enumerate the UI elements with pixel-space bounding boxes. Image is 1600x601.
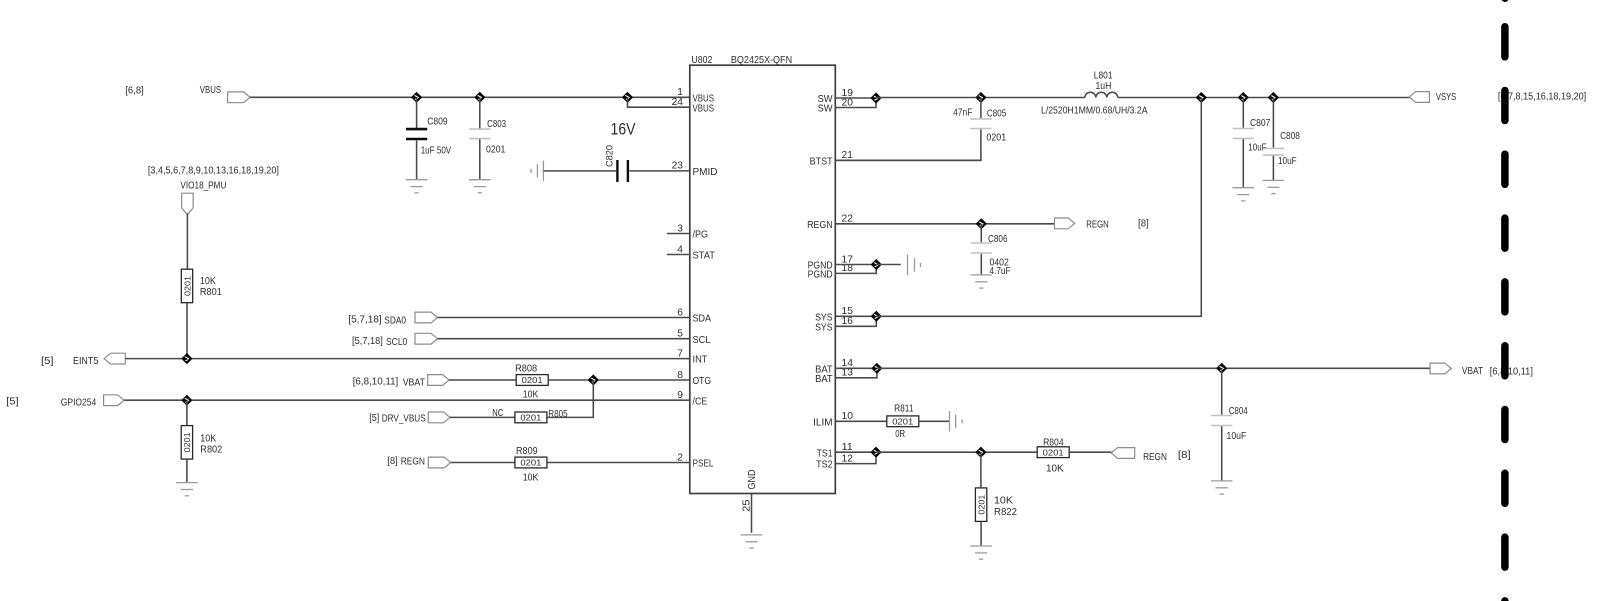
label 10K of R809 [523,473,539,484]
ground below C804 [1211,481,1233,494]
wire R811 to ground [919,420,949,422]
port VBUS (input, points right) [228,92,251,103]
wire pin 20 SW branch [835,98,876,108]
svg-text:R809: R809 [516,446,538,457]
pin 2 number [677,452,683,463]
wire C806 to ground [980,254,982,275]
junction REGN at C806 [976,218,987,229]
svg-text:47nF: 47nF [953,108,972,119]
net label VBUS [200,85,221,96]
pin 4 stub [667,254,690,256]
net label REGN [401,456,425,467]
svg-text:BAT: BAT [815,374,833,385]
svg-text:GND: GND [747,470,758,490]
pin 14 number [842,358,854,369]
svg-text:SYS: SYS [815,322,833,333]
junction VSYS at C808 [1268,92,1279,103]
svg-text:10K: 10K [523,473,539,484]
pin 5 name SCL [693,335,711,346]
wire pin 15 SYS [835,315,876,317]
svg-text:TS1: TS1 [817,448,833,459]
junction GPIO254/R802 [181,395,192,406]
svg-text:DRV_VBUS: DRV_VBUS [382,414,426,425]
pin 8 number [677,370,683,381]
junction SW at C805 [975,92,986,103]
pin 8 name OTG [693,376,712,387]
pin 16 name SYS [815,322,833,333]
svg-text:C804: C804 [1229,406,1248,417]
capacitor C803 [469,129,490,139]
svg-text:23: 23 [672,161,684,172]
svg-text:BTST: BTST [810,156,834,167]
net label EINT5 [73,356,99,367]
svg-text:10uF: 10uF [1278,156,1297,167]
op-amp U802 IC body BQ2425X-QFN [690,65,836,493]
pin 19 name SW [818,94,833,105]
svg-text:[3,4,5,6,7,8,9,10,13,16,18,19,: [3,4,5,6,7,8,9,10,13,16,18,19,20] [148,165,279,176]
wire R802 to ground [186,459,188,482]
pin 15 number [842,306,854,317]
svg-text:21: 21 [842,150,854,161]
label R811 [894,403,914,414]
svg-text:L801: L801 [1094,71,1113,82]
junction on VBUS at C809 [411,92,422,103]
junction BAT at C804 [1216,363,1227,374]
pin 1 number [677,87,683,98]
wire pin 12 TS2 branch [835,452,876,463]
svg-text:7: 7 [677,348,683,359]
pin 25 name GND (rotated) [747,470,758,490]
junction VSYS at SYS riser [1196,92,1207,103]
port VSYS (points left) [1409,92,1429,103]
pin 14 name BAT [815,364,833,375]
pin 23 name PMID [693,167,718,178]
pin 11 name TS1 [817,448,833,459]
svg-text:SW: SW [818,104,833,115]
svg-text:6: 6 [677,307,683,318]
page boundary dashed line [1501,0,1509,601]
pin 11 number [842,442,854,453]
pin 3 name /PG [693,230,709,241]
svg-text:R811: R811 [894,403,914,414]
svg-text:0201: 0201 [986,133,1006,144]
svg-text:[6,8]: [6,8] [125,86,144,97]
net reference [6,8] for VBUS [125,86,144,97]
wire ground to C820 [543,170,616,172]
net label GPIO254 [61,397,97,408]
label 10K of R822 [994,495,1013,506]
pin 1 name VBUS [693,93,715,104]
svg-text:C805: C805 [987,109,1007,120]
svg-text:10K: 10K [523,389,539,400]
port DRV_VBUS (points right) [428,412,450,423]
svg-text:VBAT: VBAT [403,377,426,388]
svg-text:REGN: REGN [1086,220,1109,231]
svg-text:8: 8 [677,370,683,381]
wire C809 to ground [416,140,418,179]
svg-text:REGN: REGN [401,456,425,467]
svg-text:0R: 0R [895,429,905,440]
ground below R802 [176,483,198,496]
pin 4 name STAT [693,251,716,262]
pin 18 name PGND [808,270,833,281]
net reference [5,7,18] for SDA0 [348,314,382,325]
svg-text:1uH: 1uH [1096,81,1112,92]
ground below C803 [469,180,491,193]
power port VIO18_PMU (points down) [182,193,194,215]
resistor R805 [515,412,547,423]
svg-text:13: 13 [842,368,854,379]
svg-text:SCL: SCL [693,335,711,346]
capacitor C807 wire top [1242,98,1244,128]
net reference [5,7,18] for SCL0 [352,336,383,347]
svg-text:ILIM: ILIM [813,417,833,428]
label 10uF of C808 [1278,156,1297,167]
wire pin 10 ILIM to R811 [835,420,887,422]
svg-text:STAT: STAT [693,251,716,262]
svg-text:R822: R822 [994,507,1017,518]
wire R822 to ground [980,522,982,546]
junction SW pins [870,92,881,103]
svg-text:C820: C820 [604,145,615,167]
net label REGN ts [1143,452,1167,463]
svg-text:PSEL: PSEL [693,459,714,470]
port GPIO254 (points right) [104,395,125,406]
wire PGND to ground [876,264,901,266]
pin 4 number [677,244,683,255]
svg-text:INT: INT [693,355,709,366]
label R808 [515,364,537,375]
label 10K of R804 [1046,463,1064,474]
ground below C807 [1233,188,1255,201]
capacitor C808 wire top [1272,98,1274,148]
wire pin 17 PGND [835,264,876,266]
label 1uH [1096,81,1112,92]
label R801 [200,287,222,298]
label U802 [691,55,712,66]
svg-text:SDA: SDA [693,314,712,325]
label 4.7uF of C806 [990,266,1011,277]
net reference [8] for REGN ts [1178,450,1191,461]
pin 9 name /CE [693,396,708,407]
net label VBAT [403,377,426,388]
resistor R801 [181,269,192,303]
pin 9 number [677,390,683,401]
wire C807 to ground [1242,139,1244,188]
label NC [492,408,503,419]
svg-text:/CE: /CE [693,396,708,407]
svg-text:VBUS: VBUS [693,103,715,114]
wire SDA0 to pin 6 SDA [438,317,690,319]
wire R805 up to OTG junction [547,380,593,417]
wire C808 to ground [1272,156,1274,181]
svg-text:C808: C808 [1280,131,1300,142]
net reference [5] for GPIO254 [6,397,19,408]
svg-text:PMID: PMID [693,167,718,178]
inductor L801 [1085,92,1118,97]
svg-text:0201: 0201 [520,413,541,423]
pin 12 number [842,453,854,464]
net reference [8] for REGN input [387,456,398,467]
label BQ2425X-QFN [731,55,792,66]
svg-text:10uF: 10uF [1227,431,1247,442]
label 0402 of C806 [990,257,1010,268]
svg-text:C809: C809 [427,116,448,127]
label R804 [1043,438,1064,449]
net reference [8] for REGN out [1138,219,1149,230]
svg-text:9: 9 [677,390,683,401]
label R822 [994,507,1017,518]
svg-text:SCL0: SCL0 [386,337,408,348]
net reference [3,4,...] for VIO18_PMU [148,165,279,176]
label C820 (rotated) [604,145,615,167]
net reference for VSYS [1498,92,1587,103]
capacitor C805 [970,119,991,129]
junction PGND pins [871,259,882,270]
wire R809 to pin 2 PSEL [547,462,690,464]
svg-text:VIO18_PMU: VIO18_PMU [180,181,226,192]
label C804 [1229,406,1248,417]
svg-text:1uF 50V: 1uF 50V [421,145,452,156]
wire VBUS port to pin 1 [250,96,690,98]
resistor R802 [181,426,192,460]
wire pin 18 PGND branch [835,265,876,274]
junction on VBUS at pins 1/24 [622,92,633,103]
label 0201 of C805 [986,133,1006,144]
label 47nF [953,108,972,119]
svg-text:16V: 16V [611,121,636,139]
port VBAT (points right) [428,375,449,386]
pin 10 number [842,411,854,422]
svg-text:[8]: [8] [387,456,398,467]
svg-text:0201: 0201 [182,276,192,296]
pin 13 name BAT [815,374,833,385]
wire SCL0 to pin 5 SCL [438,338,690,340]
resistor R809 [515,457,547,468]
svg-text:4.7uF: 4.7uF [990,266,1011,277]
wire pin 16 SYS branch [835,316,876,326]
ground below C808 [1263,180,1285,193]
pin 18 number [842,263,854,274]
svg-text:0201: 0201 [892,417,913,427]
wire GPIO254 to pin 9 /CE [124,399,690,401]
svg-text:20: 20 [842,97,854,108]
svg-text:VSYS: VSYS [1436,92,1456,103]
pin 5 number [677,329,683,340]
label C805 [987,109,1007,120]
svg-text:/PG: /PG [693,230,709,241]
svg-text:0201: 0201 [976,494,986,514]
svg-text:[6,8,10,11]: [6,8,10,11] [353,376,399,387]
ground below C806 [971,275,993,288]
wire REGN to R809 [451,462,515,464]
net reference [5] for DRV_VBUS [369,413,379,424]
net label SDA0 [384,316,406,327]
net reference [5] for EINT5 [41,356,54,367]
svg-text:REGN: REGN [1143,452,1167,463]
svg-text:U802: U802 [691,55,712,66]
junction VSYS at C807 [1238,92,1249,103]
ground at ILIM (horizontal, right) [950,411,963,432]
port REGN out (points right) [1055,218,1075,229]
capacitor C806 [971,243,992,253]
svg-text:VBAT: VBAT [1462,366,1484,377]
capacitor C809 [406,129,427,139]
svg-text:C803: C803 [487,119,506,130]
svg-text:VBUS: VBUS [200,85,221,96]
wire C820 to pin 23 PMID [629,170,690,172]
label R805 [548,409,568,420]
pin 13 number [842,368,854,379]
pin 25 stub [751,494,753,533]
pin 17 number [842,254,854,265]
pin 15 name SYS [815,312,833,323]
svg-text:[8]: [8] [1138,219,1149,230]
label L801 [1094,71,1113,82]
wire C804 to ground [1221,426,1223,481]
ground at PGND (horizontal, right) [908,255,921,276]
wire SYS to VSYS riser [876,98,1201,317]
svg-text:10K: 10K [200,434,216,445]
port REGN (points right) [428,457,450,468]
pin 3 number [677,223,683,234]
svg-text:0201: 0201 [522,375,543,385]
wire junction to R802 [186,400,188,426]
port SDA0 (points right) [415,312,438,323]
wire pin 13 BAT branch [835,368,877,378]
label R809 [516,446,538,457]
svg-text:0201: 0201 [1043,447,1064,457]
wire pin 19 SW to junction [835,97,876,99]
svg-text:[5]: [5] [369,413,379,424]
ground at C820 (horizontal, left) [531,161,543,182]
svg-text:5: 5 [677,329,683,340]
port EINT5 (points left) [104,353,125,364]
svg-text:12: 12 [842,453,854,464]
pin 7 name INT [693,355,709,366]
svg-text:24: 24 [672,97,684,108]
pin 3 stub [667,233,690,235]
pin 6 number [677,307,683,318]
wire DRV_VBUS to R805 [450,416,515,418]
svg-text:C806: C806 [988,234,1008,245]
wire pin 21 BTST [835,159,981,161]
capacitor C805 wire top [980,98,982,119]
pin 23 number [672,161,684,172]
wire TS to R804 [876,451,1037,453]
pin 16 number [842,316,854,327]
svg-text:R808: R808 [515,364,537,375]
wire R808 to pin 8 OTG [548,379,690,381]
pin 22 number [842,214,854,225]
label 10K of R802 [200,434,216,445]
capacitor C806 wire top [980,224,982,243]
junction on VBUS at C803 [474,92,485,103]
port REGN ts (points left) [1111,448,1135,459]
svg-text:3: 3 [677,223,683,234]
svg-text:OTG: OTG [693,376,712,387]
svg-text:0201: 0201 [182,432,192,452]
label 10uF of C807 [1248,142,1266,153]
ground below C809 [406,180,428,193]
svg-text:SDA0: SDA0 [384,316,406,327]
junction TS at R822 [975,447,986,458]
svg-text:0201: 0201 [520,458,541,468]
svg-text:GPIO254: GPIO254 [61,397,97,408]
wire TS junction to R822 [980,452,982,487]
svg-text:TS2: TS2 [816,460,833,471]
wire VBAT to R808 [449,379,516,381]
svg-text:10: 10 [842,411,854,422]
pin 2 name PSEL [693,459,714,470]
capacitor C803 wire top [479,97,481,128]
wire pin 14 BAT [835,367,877,369]
wire SW to L801 [876,97,1085,99]
svg-text:L/2520H1MM/0.68/UH/3.2A: L/2520H1MM/0.68/UH/3.2A [1041,106,1148,117]
svg-text:NC: NC [492,408,503,419]
label R802 [200,444,222,455]
wire pin 11 TS1 [835,451,876,453]
ground at pin 25 [741,535,763,548]
capacitor C804 [1211,416,1232,426]
wire R804 to REGN port [1069,451,1111,453]
resistor R811 [887,416,919,427]
pin 22 name REGN [807,220,833,231]
svg-text:R805: R805 [548,409,568,420]
wire C805 to BTST pin 21 [835,129,981,160]
net label VIO18_PMU [180,181,226,192]
wire EINT5 to pin 7 INT [125,358,690,360]
svg-text:EINT5: EINT5 [73,356,99,367]
svg-text:REGN: REGN [807,220,833,231]
pin 20 name SW [818,104,833,115]
label 10uF of C804 [1227,431,1247,442]
svg-text:[5]: [5] [41,356,54,367]
port SCL0 (points right) [415,333,438,344]
wire VIO18_PMU to R801 [186,213,188,269]
capacitor C807 [1233,129,1254,139]
svg-text:10K: 10K [994,495,1013,506]
port VBAT out (points right) [1430,363,1451,374]
label C808 [1280,131,1300,142]
resistor R804 [1037,447,1069,458]
svg-text:PGND: PGND [808,270,833,281]
label L/2520H1MM/0.68/UH/3.2A [1041,106,1148,117]
pin 12 name TS2 [816,460,833,471]
pin 21 name BTST [810,156,834,167]
pin 10 name ILIM [813,417,833,428]
svg-text:4: 4 [677,244,683,255]
pin 6 name SDA [693,314,712,325]
label 10K of R801 [200,276,216,287]
resistor R808 [516,375,548,386]
svg-text:11: 11 [842,442,854,453]
svg-text:[5]: [5] [6,397,19,408]
pin 19 number [842,88,854,99]
net reference for VBAT out [1490,366,1533,377]
resistor R822 [975,488,986,522]
svg-text:R802: R802 [200,444,222,455]
net label VBAT out [1462,366,1484,377]
pin 21 number [842,150,854,161]
ground below R822 [970,546,992,559]
pin 17 name PGND [808,261,833,272]
pin 7 number [677,348,683,359]
svg-text:10K: 10K [200,276,216,287]
wire R801 to EINT5 net [186,303,188,359]
net label REGN out [1086,220,1109,231]
capacitor C820 plates [617,160,628,182]
